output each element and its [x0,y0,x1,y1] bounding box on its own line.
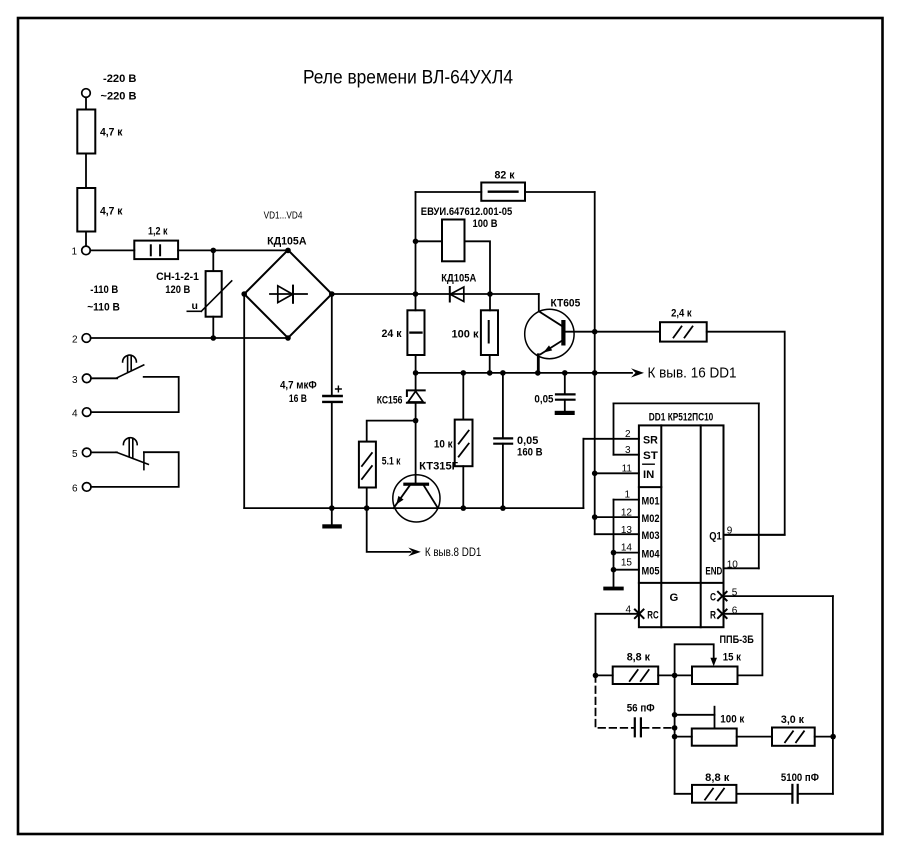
wire bridge left to ground rail [243,294,245,508]
node [500,505,506,511]
wire 15k right to R pin [738,614,763,676]
svg-text:6: 6 [732,605,738,616]
resistor 8,8 к (upper) [613,667,659,685]
node [672,734,678,740]
wire rail К выв. 16 DD1 [416,372,632,374]
wire 2,4k right to Q1 pin9 [707,332,785,535]
wire [799,793,833,795]
pin 15 M05 [614,569,639,571]
resistor 4,7 к (lower) [77,188,95,232]
wire fixed contact 5-6 [91,452,179,487]
pin 3 ST [614,454,639,456]
svg-text:3,0 к: 3,0 к [781,714,805,726]
svg-text:10 к: 10 к [434,438,453,450]
wire 100k bottom [489,355,491,373]
switch SB1 contact blade [117,365,144,378]
resistor 82 к [481,183,525,201]
wire [91,377,117,379]
wire M01 riser to ground [613,500,615,587]
wire fixed contact 3-4 [91,377,179,412]
wire 24k bottom [415,355,417,373]
svg-text:0,05: 0,05 [534,394,553,406]
resistor 100 к (bottom) [692,729,737,746]
svg-text:100 к: 100 к [452,328,479,340]
wire to 82k [416,191,482,193]
node [592,471,598,477]
svg-text:VD1...VD4: VD1...VD4 [264,210,303,222]
wire top rail y294 [332,293,539,295]
resistor 100 к [481,310,498,355]
svg-text:КС156: КС156 [377,394,403,406]
svg-text:13: 13 [621,525,633,536]
wire RC down [595,614,597,676]
wire 100k tap [675,714,715,716]
wire ST riser to bypass [613,403,615,454]
node [461,370,467,376]
node [672,725,678,731]
svg-text:M04: M04 [642,549,661,561]
terminal -220V [82,89,91,98]
pin 11 IN [595,472,639,474]
wire [658,674,692,676]
svg-text:5: 5 [732,588,738,599]
node bridge left vertex [241,291,247,297]
node [672,712,678,718]
node [592,514,598,520]
pin 9 Q1 [724,534,785,536]
IC DD1 КР512ПС10 box [639,425,724,627]
svg-text:82 к: 82 к [495,170,515,182]
wire arrow К выв.8 DD1 [367,508,411,552]
svg-text:КТ315Г: КТ315Г [419,461,459,473]
svg-text:SR: SR [643,434,658,446]
svg-text:END: END [705,565,722,577]
wire [91,451,117,453]
svg-text:1,2 к: 1,2 к [148,226,168,238]
svg-text:~110 В: ~110 В [87,302,120,314]
svg-text:8,8 к: 8,8 к [627,652,651,664]
capacitor 5100 пФ [791,785,793,803]
terminal 3 [82,374,91,383]
svg-text:4,7 к: 4,7 к [100,127,123,139]
wire 82k left riser [415,192,417,310]
wire [815,736,833,738]
dashed wire 56пФ to node [642,727,675,729]
wire relay left [416,240,443,242]
svg-text:G: G [670,592,679,604]
wire [85,97,87,109]
terminal 2 [82,334,91,343]
svg-text:-220 В: -220 В [103,73,137,85]
svg-text:IN: IN [643,469,654,481]
node bridge right vertex [329,291,335,297]
svg-text:КД105А: КД105А [267,236,306,248]
switch SB2 stop bar [143,452,145,469]
svg-text:3: 3 [72,375,78,386]
wire bottom row left [675,793,692,795]
transistor Q1 КТ605 [525,309,574,358]
wire [596,674,613,676]
wire [736,793,791,795]
svg-text:C: C [710,592,716,604]
node [611,550,617,556]
pin 2 SR [583,438,639,440]
node collector [592,329,598,335]
svg-text:56 пФ: 56 пФ [627,702,655,714]
svg-text:6: 6 [72,483,78,494]
switch SB2 contact blade [116,452,148,464]
svg-text:5.1 к: 5.1 к [382,455,401,467]
wire varistor top [212,250,214,271]
wire emitter to rail [537,354,539,373]
potentiometer ППБ-3Б 15 к [692,667,738,685]
zener VD КС156 [415,373,417,390]
node bridge bottom vertex [285,335,291,341]
svg-text:2: 2 [72,335,78,346]
node [611,567,617,573]
svg-text:~220 В: ~220 В [101,91,137,103]
ground symbol [555,411,575,415]
svg-text:M02: M02 [642,513,660,525]
svg-text:ST: ST [643,450,658,462]
wire [85,232,87,247]
arrow to pin 16 DD1 [631,368,644,377]
wire [675,736,692,738]
svg-text:1: 1 [72,247,78,258]
node [830,734,836,740]
svg-text:4: 4 [625,604,631,615]
svg-text:СН-1-2-1: СН-1-2-1 [156,271,199,283]
pin 13 M03 [595,533,639,535]
node [500,370,506,376]
svg-text:160 В: 160 В [517,447,543,459]
wire varistor bottom [212,317,214,338]
pin 6 R [724,613,763,615]
node junction on wire 2 [211,335,217,341]
svg-text:16 В: 16 В [289,393,307,405]
node [592,370,598,376]
terminal 4 [82,408,91,417]
svg-text:R: R [710,609,716,621]
svg-text:ППБ-3Б: ППБ-3Б [720,634,754,646]
wire node column [674,675,676,793]
svg-text:5100 пФ: 5100 пФ [781,772,819,784]
svg-text:15 к: 15 к [723,652,742,664]
svg-text:ЕВУИ.647612.001-05: ЕВУИ.647612.001-05 [421,206,513,218]
svg-text:12: 12 [621,508,633,519]
svg-text:100 В: 100 В [473,218,498,230]
svg-text:К выв.8 DD1: К выв.8 DD1 [425,547,482,559]
svg-text:К выв. 16 DD1: К выв. 16 DD1 [648,365,737,382]
wire [178,249,288,251]
svg-text:RC: RC [647,609,658,621]
svg-text:1: 1 [624,489,630,500]
wire relay right [465,241,491,310]
svg-text:4,7 мкФ: 4,7 мкФ [280,380,317,392]
ground symbol [603,587,623,591]
svg-text:10: 10 [727,559,739,570]
svg-text:u: u [192,300,198,312]
resistor 2,4 к [660,322,707,341]
wire right riser down to collector node [594,192,596,373]
wire to 5.1k [367,421,416,442]
pin 12 M02 [595,516,639,518]
wire zener bottom [415,403,417,483]
svg-text:9: 9 [727,526,733,537]
switch SB2 pushbutton actuator [123,438,137,445]
svg-text:4: 4 [72,409,78,420]
terminal 5 [82,448,91,457]
svg-text:14: 14 [621,543,633,554]
svg-text:8,8 к: 8,8 к [705,772,730,784]
diode КД105А [450,287,464,302]
node RC junction [593,673,599,679]
svg-text:3: 3 [625,445,631,456]
node [487,370,493,376]
node [413,418,419,424]
pin 1 M01 [614,499,639,501]
wire [85,154,87,189]
node bridge top vertex [285,248,291,254]
pin 10 END [724,567,759,569]
wire collector [566,331,661,333]
terminal 6 [82,483,91,492]
svg-text:2: 2 [625,429,631,440]
capacitor 4,7 мкФ 16 В [323,395,341,397]
svg-text:5: 5 [72,449,78,460]
node junction on wire 1 [211,248,217,254]
svg-text:M03: M03 [642,530,660,542]
svg-text:0,05: 0,05 [517,435,538,447]
switch SB1 pushbutton actuator [123,355,137,362]
resistor 4,7 к (upper) [77,110,95,154]
pin 4 RC [596,613,639,615]
diode bridge VD1...VD4 КД105А [244,250,332,338]
capacitor 56 пФ [634,718,636,736]
resistor 3,0 к [772,728,815,746]
wire cap bottom to rail [331,403,333,508]
wire 82k right [525,191,595,193]
resistor 1,2 к [134,241,178,260]
svg-text:Реле времени ВЛ-64УХЛ4: Реле времени ВЛ-64УХЛ4 [303,67,513,89]
wire [737,736,772,738]
ground rail [244,507,583,509]
pin 14 M04 [614,552,639,554]
resistor 24 к [407,310,424,355]
svg-text:15: 15 [621,557,633,568]
svg-text:DD1 КР512ПС10: DD1 КР512ПС10 [649,411,714,423]
node relay left [413,239,419,245]
svg-text:M01: M01 [642,496,660,508]
capacitor 0,05 to ground [564,373,566,394]
wire bridge right down to cap [331,294,333,395]
wire line A from rail to M03 [594,373,596,534]
svg-text:11: 11 [622,464,633,475]
node [413,291,419,297]
wire rail right end riser to SR [582,439,584,508]
node [487,291,493,297]
varistor СН-1-2-1 [206,271,222,317]
terminal 1 [82,246,91,255]
dashed wire RC to 56пФ [596,675,634,728]
svg-text:120 В: 120 В [165,284,190,296]
resistor 8,8 к (bottom) [692,785,736,803]
ground symbol [331,508,333,524]
capacitor 0,05 160 В [502,373,504,438]
node [461,505,467,511]
svg-text:4,7 к: 4,7 к [100,206,123,218]
wire 2 [91,337,288,339]
node [329,505,335,511]
node [364,505,370,511]
resistor 5.1 к [359,442,376,488]
resistor 10 к [462,373,464,420]
wire 5.1k bottom [366,488,368,509]
wiper wire [675,644,714,675]
svg-text:M05: M05 [642,566,660,578]
svg-text:Q1: Q1 [709,530,722,542]
node [672,673,678,679]
svg-text:КД105А: КД105А [441,272,476,284]
wire bypass ST to END top [614,402,759,404]
svg-text:КТ605: КТ605 [551,297,581,309]
transistor Q2 КТ315Г [393,475,440,522]
wire bypass right riser [758,403,760,568]
node [413,370,419,376]
svg-text:-110 В: -110 В [90,284,118,296]
node [535,370,541,376]
wire [90,249,134,251]
svg-text:24 к: 24 к [382,328,402,340]
relay K1 ЕВУИ.647612.001-05 100 В [442,220,465,262]
svg-text:100 к: 100 к [720,713,744,725]
svg-text:2,4 к: 2,4 к [671,308,692,320]
wire C pin right riser [832,596,834,794]
pin 5 C [724,595,833,597]
node [562,370,568,376]
